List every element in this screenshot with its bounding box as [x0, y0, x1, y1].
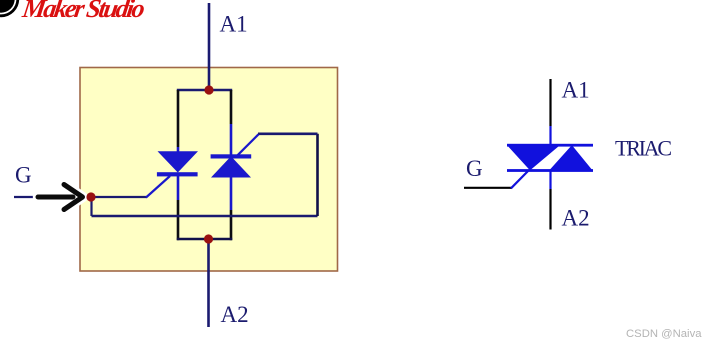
svg-text:CSDN @Naiva: CSDN @Naiva — [626, 328, 702, 340]
thyristor Q1 triangle — [158, 151, 199, 172]
component body (yellow box) — [80, 68, 338, 272]
wire inner rect left upper — [177, 90, 180, 147]
TRIAC U1 bottom lead black — [549, 189, 551, 230]
thyristor Q2 anode bar — [211, 154, 252, 158]
thyristor Q1 cathode bar — [157, 172, 198, 176]
TRIAC U1 top bar — [507, 144, 593, 147]
wire gate1 diagonal — [146, 176, 170, 198]
wire inner rect top — [177, 89, 232, 92]
TRIAC U1 right triangle — [549, 145, 592, 170]
wire G node to gate1 horizontal — [92, 196, 148, 198]
svg-text:Maker Studio: Maker Studio — [20, 0, 147, 23]
TRIAC U1 bottom lead blue stub — [549, 170, 551, 189]
svg-text:TRIAC: TRIAC — [615, 136, 672, 161]
gate arrow — [38, 185, 83, 210]
wire inner rect left lower — [177, 200, 180, 240]
TRIAC U1 bottom bar — [507, 169, 593, 172]
svg-text:A1: A1 — [562, 78, 590, 103]
svg-text:G: G — [466, 156, 483, 181]
svg-text:A2: A2 — [221, 302, 249, 327]
svg-text:G: G — [15, 163, 32, 188]
wire bottom long horizontal — [92, 215, 318, 218]
TRIAC U1 gate lead black — [464, 187, 512, 189]
logo black circle — [0, 0, 19, 17]
wire SCR1 cathode lead — [177, 175, 180, 200]
svg-text:A1: A1 — [220, 12, 248, 37]
TRIAC U1 gate diagonal blue — [511, 170, 529, 188]
TRIAC U1 top lead blue stub — [549, 126, 551, 145]
node G junction — [86, 192, 95, 201]
svg-text:A2: A2 — [562, 206, 590, 231]
wire SCR2 lower lead — [230, 176, 233, 210]
node top junction — [204, 85, 213, 94]
wire top right horizontal — [258, 133, 318, 136]
wire gate2 diagonal — [238, 134, 259, 155]
wire stub blue above SCR1 — [177, 147, 180, 153]
wire stub blue above SCR2 — [230, 124, 233, 157]
wire A2 lead — [207, 239, 210, 327]
wire inner rect right upper — [230, 90, 233, 124]
TRIAC U1 top lead black — [549, 79, 551, 126]
TRIAC U1 left triangle — [507, 145, 560, 170]
wire G node down — [90, 197, 92, 216]
wire right vertical — [316, 134, 319, 216]
thyristor Q2 triangle — [211, 156, 251, 177]
node bottom junction — [204, 234, 213, 243]
wire G stub outside — [14, 196, 36, 198]
wire inner rect right lower — [230, 210, 233, 240]
wire A1 lead — [208, 3, 211, 90]
wire inner rect bottom — [177, 238, 232, 241]
